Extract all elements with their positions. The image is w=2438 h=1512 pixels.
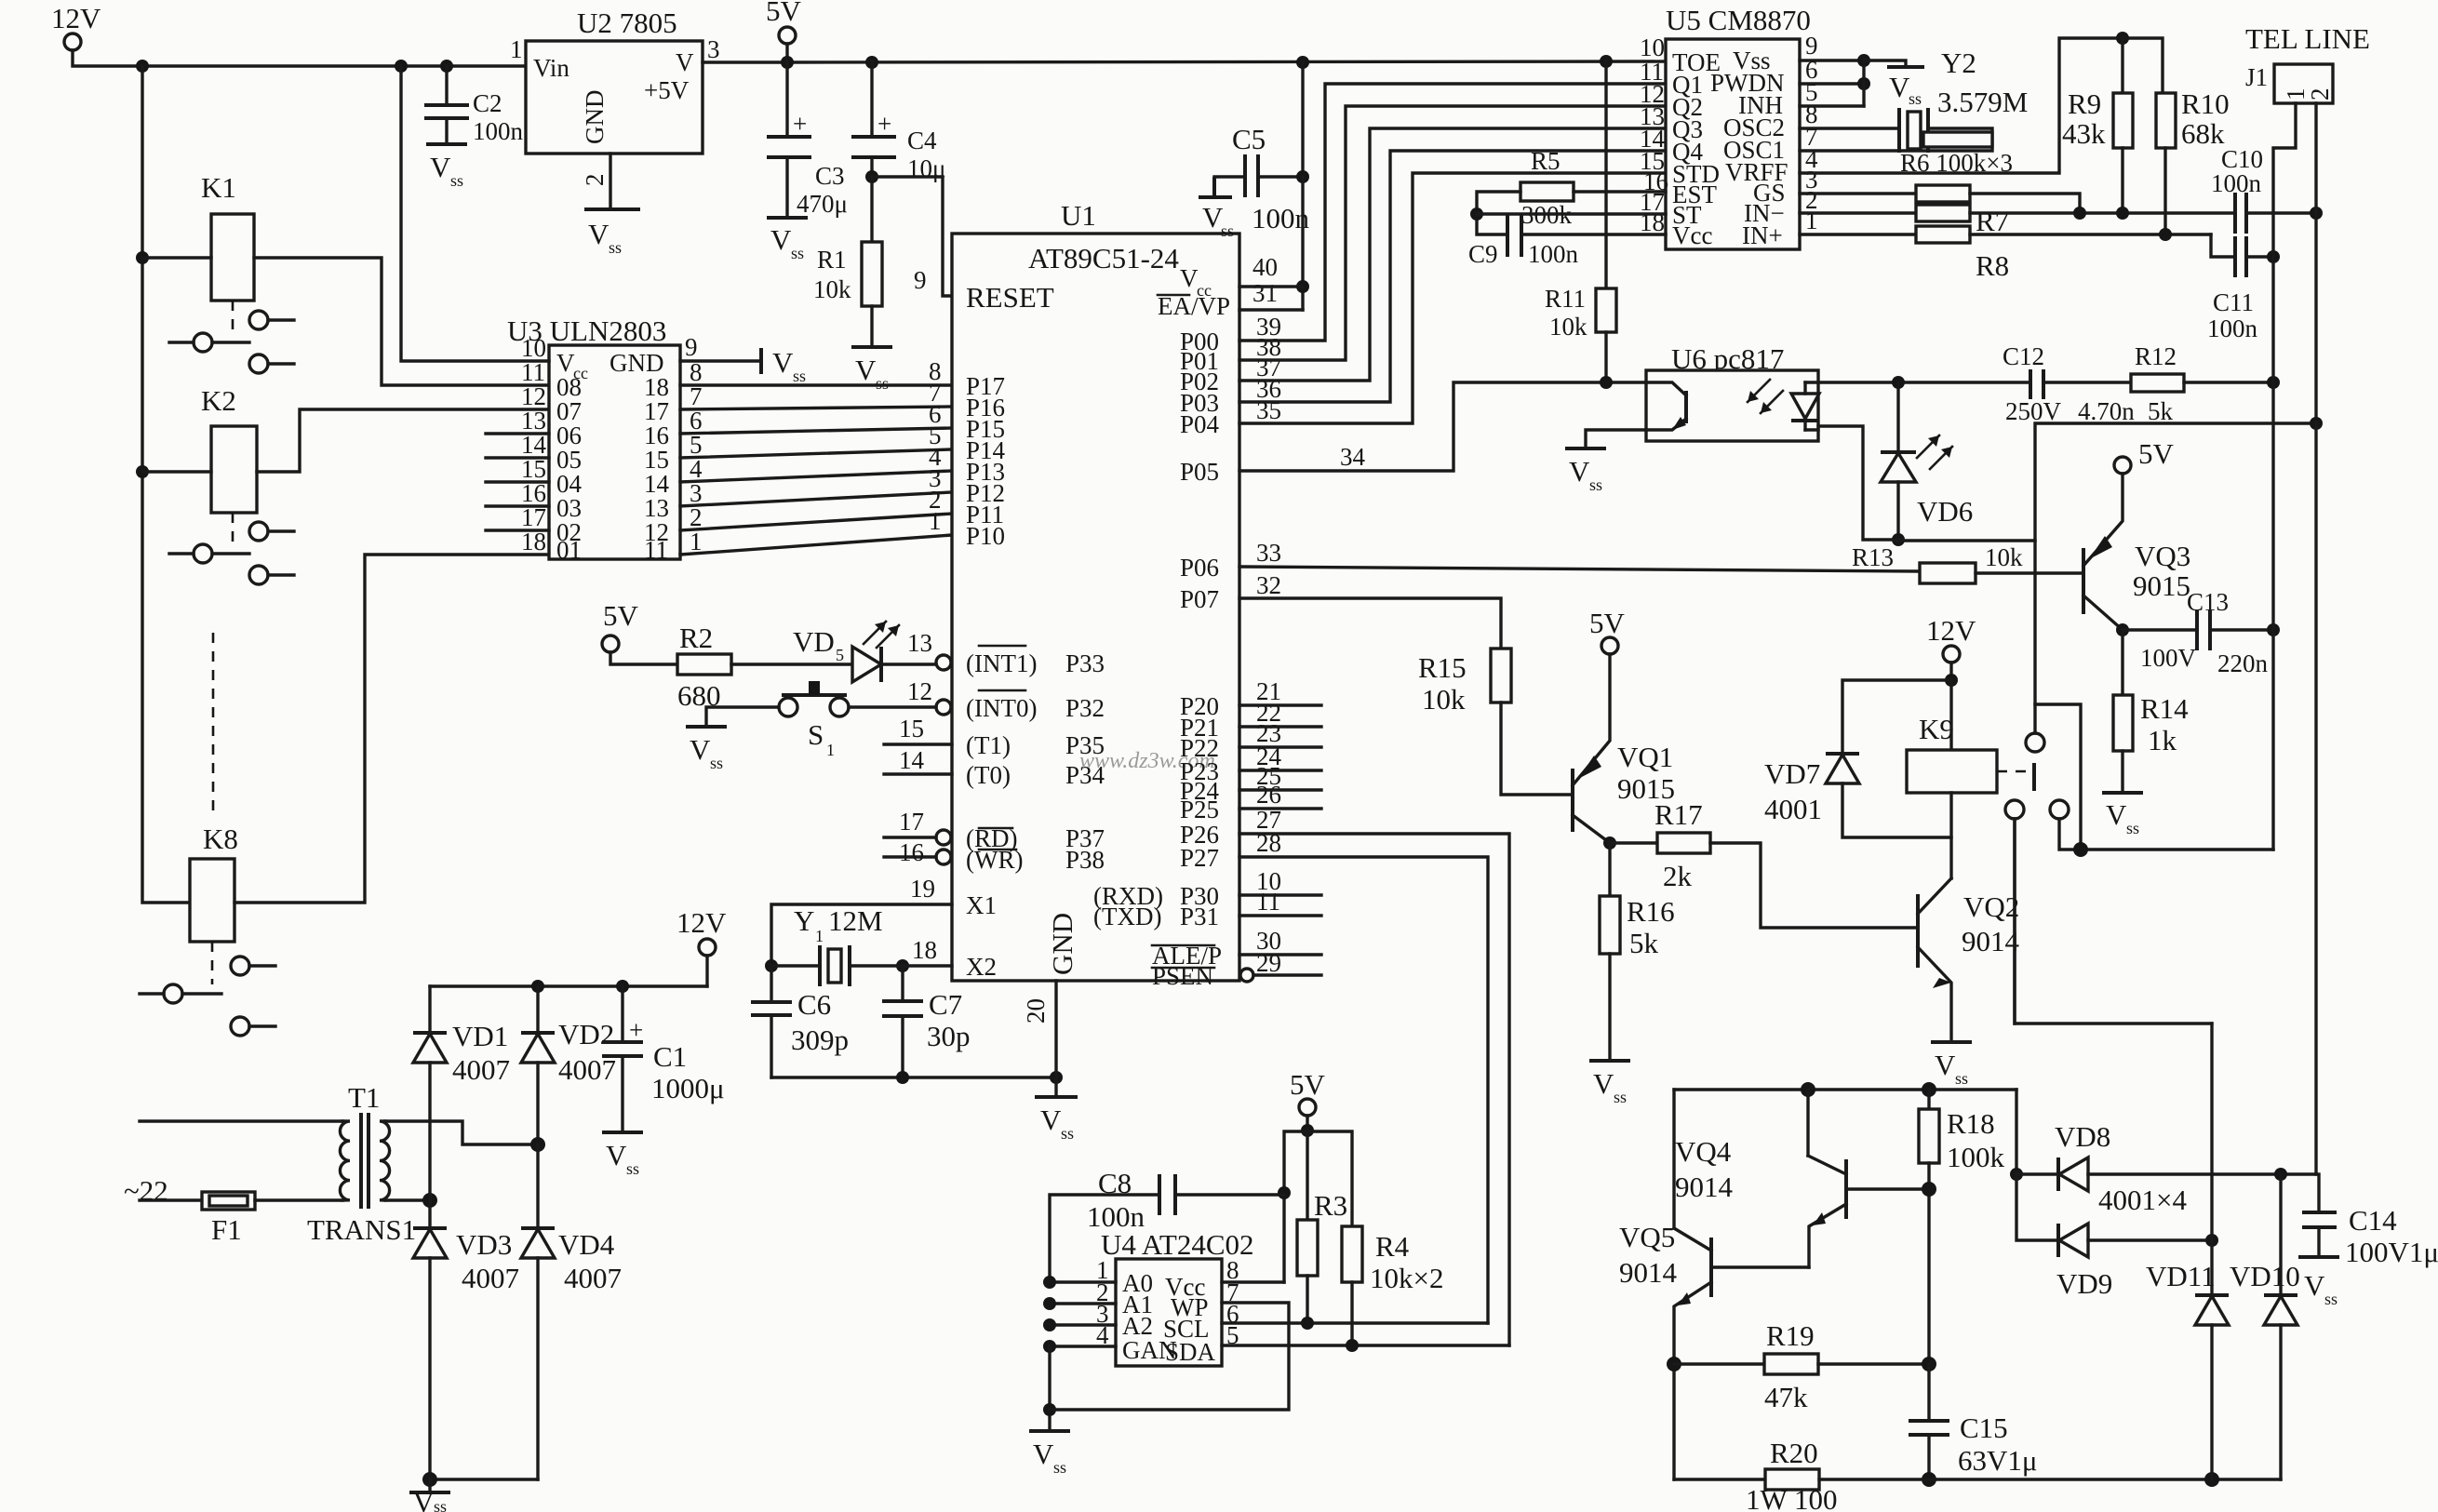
svg-text:1: 1 [929,507,942,535]
svg-text:V: V [430,151,451,183]
wire U4 SDA pin5 to P26 [1222,1344,1509,1346]
svg-text:34: 34 [1340,443,1366,471]
svg-text:+: + [877,110,891,138]
svg-text:ss: ss [876,374,889,393]
svg-text:16: 16 [899,838,924,866]
svg-text:R18: R18 [1947,1107,1995,1140]
svg-text:V: V [2304,1269,2325,1302]
svg-text:C13: C13 [2187,588,2229,616]
resistor R17 2k [1610,841,1657,844]
svg-text:309p: 309p [791,1024,849,1056]
svg-text:GND: GND [581,90,609,145]
svg-text:R4: R4 [1375,1230,1410,1263]
svg-text:VD4: VD4 [558,1228,615,1261]
wire top rail corner down to diode rows [2015,1090,2017,1174]
svg-text:3: 3 [707,35,720,63]
node R11/U6 junction [1600,376,1613,389]
wire crystal ground row [771,1076,1056,1078]
svg-text:R15: R15 [1418,651,1467,684]
wire 12V to U3 Vcc pin10 [401,66,549,361]
wire C14 stem [2317,1174,2320,1212]
wire 5V rail across top [787,61,1666,62]
wire U5 Vss PWDN INH to ground [1800,59,1864,61]
wire mains input upper [140,1119,342,1122]
svg-text:47k: 47k [1764,1381,1808,1413]
svg-text:ss: ss [793,367,806,385]
resistor R2 [677,654,731,675]
svg-text:19: 19 [910,875,935,903]
svg-text:9014: 9014 [1619,1256,1678,1289]
pin circle RD [936,830,951,845]
svg-text:U1: U1 [1061,199,1096,232]
relay contacts K9 [1997,770,2029,773]
svg-text:10k: 10k [1985,543,2023,571]
svg-text:5V: 5V [766,0,802,27]
svg-text:ss: ss [450,171,463,190]
ground Vss below R16 [1589,1059,1630,1063]
wire TEL J1-2 chain to bridge [2314,423,2317,1174]
svg-text:VD6: VD6 [1917,495,1973,528]
ground Vss below C2 [426,142,467,146]
resistor R16 5k [1608,843,1611,896]
svg-text:C7: C7 [929,988,962,1021]
U6 phototransistor left [1646,382,1686,395]
svg-text:ss: ss [1589,475,1602,494]
svg-text:V: V [413,1486,435,1512]
resistor R3 [1306,1131,1308,1220]
svg-text:(T1): (T1) [966,731,1011,759]
svg-text:C12: C12 [2003,342,2044,370]
ground Vss below R1 [851,345,892,349]
svg-text:ss: ss [1061,1124,1074,1143]
svg-text:12V: 12V [51,2,101,34]
wire bus P01 to U5 Q2 [1239,106,1666,360]
svg-text:R8: R8 [1976,249,2009,282]
svg-text:R10: R10 [2181,87,2230,120]
svg-text:1k: 1k [2148,724,2177,756]
svg-text:VD7: VD7 [1764,757,1820,790]
wire U6 emitter to Vss [1586,430,1646,448]
svg-text:4007: 4007 [462,1262,519,1294]
svg-text:11: 11 [644,536,668,564]
svg-text:ss: ss [1053,1458,1066,1477]
svg-text:+: + [793,110,807,138]
svg-text:100k: 100k [1947,1141,2005,1173]
svg-text:12: 12 [907,677,932,705]
svg-text:K1: K1 [201,171,236,204]
ground Vss below C3 [767,216,808,220]
ground Vss below U4 [1029,1429,1070,1433]
wire R17 to VQ2 base [1710,843,1918,928]
wire bus P03 to U5 Q4 [1239,151,1666,402]
wire 12V terminal to rail [73,50,526,66]
svg-text:33: 33 [1256,539,1281,567]
svg-text:1: 1 [1805,207,1818,234]
capacitor C7 [901,966,904,1001]
wires U3 outputs to U1 P17-P10 [680,383,952,386]
svg-text:VQ3: VQ3 [2135,540,2190,572]
svg-text:VD1: VD1 [452,1020,508,1052]
svg-text:VD8: VD8 [2055,1120,2110,1153]
svg-text:C9: C9 [1468,240,1498,268]
svg-text:V: V [1033,1438,1054,1470]
wire U2 pin3 to 5V rail [703,60,787,63]
wire X1 loop [771,904,952,966]
svg-text:VD: VD [793,625,835,658]
wires U4 address pins to ground rail [1050,1280,1116,1283]
wire P07 to R15 [1239,598,1501,649]
pin circle PSEN pin29 [1240,969,1253,982]
svg-text:ss: ss [2126,819,2139,837]
svg-text:VD9: VD9 [2056,1267,2112,1300]
node C4/R1/RESET junction [865,170,878,183]
node C5/Vcc junction [1296,170,1309,183]
resistor R9 43k [2113,93,2133,148]
node VQ3 collector junction [2116,623,2129,636]
node 5V rail to Vcc drop [1296,56,1309,69]
svg-text:9014: 9014 [1675,1171,1734,1203]
svg-text:R14: R14 [2140,692,2189,725]
svg-text:C15: C15 [1960,1412,2008,1444]
node X2 crystal junction [765,959,778,972]
node K1 tap [136,251,149,264]
svg-text:C11: C11 [2213,288,2254,316]
wire C4 node to RESET pin9 [872,177,952,296]
svg-text:1: 1 [690,528,703,555]
wire S1 left to Vss [706,707,779,727]
svg-text:ss: ss [626,1159,639,1178]
svg-text:V: V [1593,1067,1614,1100]
relay contacts K8 [211,942,214,984]
svg-text:9014: 9014 [1962,925,2020,957]
wire VD6 node to TEL branch [1898,539,2035,542]
svg-text:S: S [808,718,824,751]
node 5V terminal VQ3 [2114,457,2131,474]
svg-text:63V1μ: 63V1μ [1958,1444,2038,1477]
resistor R14 1k [2121,630,2123,695]
svg-text:P04: P04 [1180,410,1220,438]
svg-text:1000μ: 1000μ [651,1072,725,1104]
svg-text:31: 31 [1252,279,1278,307]
svg-text:V: V [588,218,609,250]
capacitor C6 [770,966,772,1002]
svg-text:10k: 10k [1422,683,1466,716]
svg-text:ss: ss [1909,89,1922,108]
svg-text:4.70n: 4.70n [2078,397,2135,425]
diode VD7 4001 [1842,680,1951,754]
svg-text:2k: 2k [1663,860,1693,892]
wire secondary bottom row [385,1198,430,1201]
svg-text:1: 1 [815,927,824,945]
diode VD8 [2016,1172,2058,1175]
svg-text:100n: 100n [1252,202,1310,234]
wire U6 output top to C12 row [1818,381,2030,383]
diode VD9 [2056,1224,2060,1257]
resistor R7 on IN- row [1800,211,1916,214]
svg-text:01: 01 [556,536,582,564]
svg-text:~22: ~22 [124,1174,168,1207]
node VD6/U6 bottom junction [1892,533,1905,546]
U1 unconnected pin stubs T1 T0 RD WR ALE PSEN P20-P25 P30 P31 [884,743,952,745]
diode VD2 4007 [536,986,539,1033]
svg-text:IN+: IN+ [1742,221,1783,249]
svg-text:10k: 10k [1549,313,1587,341]
svg-text:K2: K2 [201,384,236,417]
svg-text:+: + [629,1016,643,1044]
svg-text:4007: 4007 [564,1262,622,1294]
svg-text:V: V [2106,798,2127,831]
resistor R15 10k [1491,649,1511,702]
resistor network R7 top box on GS row [1800,192,1916,194]
svg-text:R20: R20 [1770,1437,1818,1469]
wire U4 WP pin7 to ground [1050,1303,1289,1410]
svg-text:X2: X2 [966,953,997,981]
wire VRFF loop to R9 R10 tops [1800,38,2163,173]
pin circle INT1 [936,655,951,670]
wire bus P00 to U5 Q1 [1239,84,1666,341]
svg-text:5: 5 [836,646,844,664]
svg-text:R3: R3 [1314,1189,1347,1222]
wire J1 pin2 down [2314,103,2317,423]
svg-text:10k×2: 10k×2 [1370,1262,1443,1294]
svg-text:18: 18 [912,936,937,964]
resistor R10 68k [2156,93,2176,148]
node junction rail-K1 [136,60,149,73]
svg-text:470μ: 470μ [797,190,848,218]
capacitor C14 [2302,1211,2337,1214]
transistor VQ2 9014 NPN [1916,894,1920,968]
svg-text:J1: J1 [2245,63,2268,91]
svg-text:P27: P27 [1180,844,1219,872]
svg-text:ss: ss [2324,1290,2338,1308]
diode VD6 LED [1896,382,1899,452]
svg-text:VQ2: VQ2 [1963,890,2019,923]
svg-text:C2: C2 [473,89,502,117]
svg-text:15: 15 [899,715,924,743]
capacitor C15 [1927,1364,1930,1421]
svg-text:EA/VP: EA/VP [1158,292,1230,320]
svg-text:100V1μ: 100V1μ [2345,1236,2438,1268]
svg-text:SDA: SDA [1165,1338,1216,1366]
svg-text:VQ4: VQ4 [1675,1135,1732,1168]
wire U6 output bottom [1818,426,1898,540]
svg-text:V: V [606,1139,627,1171]
wire U4 SCL pin6 to P27 [1222,1321,1488,1324]
pin 2 of U2 to ground [609,154,611,209]
svg-text:RESET: RESET [966,281,1054,314]
svg-text:9015: 9015 [2133,569,2190,602]
svg-text:V: V [690,733,711,766]
svg-text:ss: ss [710,754,723,772]
svg-text:VQ5: VQ5 [1619,1221,1675,1253]
fuse F1 [140,1198,202,1201]
transistor VQ3 9015 PNP [2082,548,2085,614]
svg-text:5V: 5V [2138,437,2175,470]
svg-text:R7: R7 [1976,205,2009,237]
svg-text:P33: P33 [1065,649,1105,677]
svg-text:C14: C14 [2349,1204,2397,1237]
svg-text:5k: 5k [2148,397,2174,425]
resistor R20 1W 100 [1674,1478,1765,1480]
wire P06 to R13 [1239,567,1920,571]
transistor VQ1 9015 PNP [1571,769,1574,832]
ground Vss below C1 [602,1131,643,1134]
wire 5V split to R3 R4 and Vcc [1284,1131,1352,1282]
svg-text:K9: K9 [1919,713,1954,745]
wire IN+ row to C11 [1970,233,2211,235]
svg-text:C1: C1 [653,1040,687,1073]
svg-text:Y: Y [794,904,814,937]
svg-text:100n: 100n [2207,314,2258,342]
node junction rail-U3Vcc [395,60,408,73]
svg-text:ss: ss [1221,221,1234,240]
svg-text:VD10: VD10 [2230,1260,2300,1292]
svg-text:V: V [1040,1104,1062,1136]
svg-text:TRANS1: TRANS1 [307,1213,416,1246]
svg-text:100n: 100n [1528,240,1579,268]
wire U1 GND pin20 [1054,981,1057,1077]
svg-text:3.579M: 3.579M [1937,86,2028,118]
svg-text:V: V [1180,264,1199,292]
svg-text:U2 7805: U2 7805 [577,7,677,39]
relay contacts K2 [232,513,234,546]
svg-text:C4: C4 [907,127,937,154]
svg-text:P06: P06 [1180,554,1219,582]
svg-text:4007: 4007 [452,1053,510,1086]
svg-text:VD3: VD3 [456,1228,512,1261]
switch S1 [779,698,797,716]
svg-text:R13: R13 [1852,543,1894,571]
svg-text:P07: P07 [1180,585,1219,613]
svg-text:VD11: VD11 [2146,1260,2216,1292]
svg-text:5V: 5V [1589,607,1626,639]
wire K1 coil to U3 pin11 [254,258,549,385]
svg-text:(T0): (T0) [966,761,1011,789]
svg-text:P31: P31 [1180,903,1219,930]
wire U4 Vcc pin8 to 5V [1222,1280,1284,1283]
svg-text:P38: P38 [1065,846,1105,874]
svg-text:68k: 68k [2181,117,2225,150]
U3 GND pin9 to Vss [680,359,761,362]
wire J1 pin1 down [2273,103,2296,257]
svg-text:ss: ss [1955,1069,1968,1088]
capacitor C3 electrolytic [785,61,788,135]
wire left 12V rail down to K8 [142,66,190,903]
svg-text:5V: 5V [603,599,639,632]
node ST junction [1470,207,1483,221]
svg-text:2: 2 [581,174,609,187]
LED arrows VD5 [864,622,886,644]
svg-text:ss: ss [434,1497,447,1512]
svg-text:K8: K8 [203,823,238,855]
svg-text:V: V [1569,455,1590,488]
svg-text:GND: GND [1046,913,1078,975]
svg-text:9: 9 [914,266,927,294]
wire IN- row to C10 [1970,211,2235,214]
ground Vss below VQ2 [1931,1040,1972,1044]
ground Vss below GND [1035,1095,1078,1099]
svg-text:R16: R16 [1627,895,1675,928]
capacitor C11 [2233,236,2237,277]
svg-text:Vcc: Vcc [1672,221,1712,249]
svg-text:30p: 30p [927,1020,971,1052]
svg-text:R17: R17 [1654,798,1703,831]
diode VD1 4007 [428,986,431,1033]
svg-text:U5 CM8870: U5 CM8870 [1666,4,1811,36]
svg-text:C5: C5 [1232,123,1266,155]
svg-text:P05: P05 [1180,458,1219,486]
svg-text:100V: 100V [2140,644,2197,672]
svg-text:VD2: VD2 [558,1018,614,1050]
resistor R1 [870,177,873,242]
diode VD4 4007 [536,1144,539,1228]
svg-text:9: 9 [685,333,698,361]
resistor R19 47k [1667,1357,1681,1372]
svg-text:(TXD): (TXD) [1093,903,1161,930]
svg-text:ss: ss [791,244,804,262]
svg-text:12M: 12M [828,904,883,937]
svg-text:P10: P10 [966,522,1005,550]
svg-text:C3: C3 [815,162,845,190]
svg-text:VQ1: VQ1 [1617,741,1673,773]
svg-text:AT89C51-24: AT89C51-24 [1028,242,1179,274]
pin circle INT0 [936,700,951,715]
svg-text:Y2: Y2 [1941,47,1976,79]
svg-text:4001: 4001 [1764,793,1822,825]
diode VD3 4007 [428,1200,431,1228]
svg-text:R12: R12 [2135,342,2177,370]
svg-text:P32: P32 [1065,694,1105,722]
wire right vertical TEL J1-1 chain [2271,257,2274,850]
wire P27 drop [1239,857,1488,1323]
wire K9 lower contact to bottom net [2015,819,2212,1024]
pin circle WR [936,850,951,864]
ground Vss left of C5 [1212,177,1216,197]
svg-text:V: V [676,48,694,76]
wire rectifier bottom to Vss [430,1478,538,1480]
svg-text:5V: 5V [1290,1068,1326,1101]
svg-text:R19: R19 [1766,1319,1815,1352]
svg-text:1: 1 [510,35,523,63]
U6 LED arrows [1761,391,1783,413]
svg-text:R11: R11 [1545,285,1586,313]
svg-text:250V: 250V [2005,397,2062,425]
resistor R11 [1604,61,1607,288]
capacitor C1 1000u electrolytic [621,986,623,1042]
capacitor C4 electrolytic [870,61,873,135]
svg-text:220n: 220n [2217,649,2269,677]
node rail to R11 [1600,55,1613,68]
wire K9 contact drop through bridge [2210,1024,2213,1295]
svg-text:P25: P25 [1180,796,1219,823]
svg-text:ss: ss [1614,1088,1627,1106]
svg-text:2: 2 [2306,88,2334,101]
wire bus P04 to U5 STD [1239,173,1666,423]
ground Vss below R14 [2102,791,2143,795]
svg-text:(INT1): (INT1) [966,649,1037,677]
svg-text:12V: 12V [676,906,727,939]
wire P26 drop [1239,834,1509,1345]
U3 spare input stubs pins 13-17 [486,432,549,435]
wire P05 to U6 input [1239,382,1646,471]
svg-text:X1: X1 [966,891,997,919]
svg-text:1: 1 [826,741,835,759]
resistor R6 100kx3 [1923,132,1992,147]
svg-text:40: 40 [1252,253,1278,281]
resistor R4 [1342,1226,1362,1282]
svg-text:V: V [1935,1049,1956,1081]
svg-text:4007: 4007 [558,1053,616,1086]
